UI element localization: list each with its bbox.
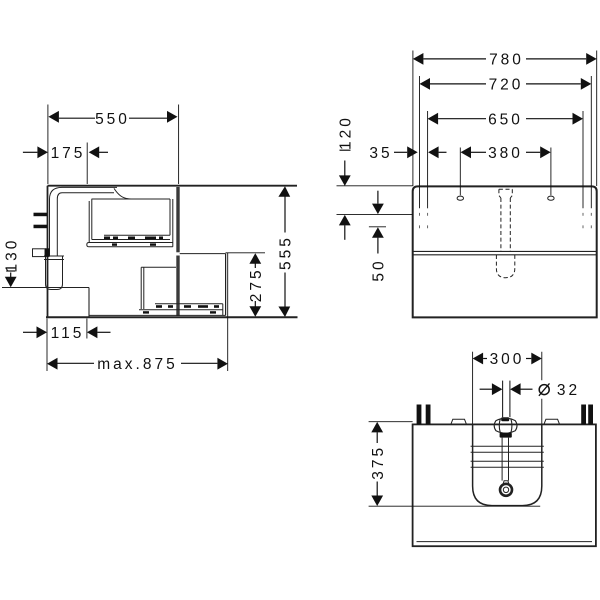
svg-text:720: 720 xyxy=(489,77,524,94)
drain pipe horizontal run xyxy=(50,187,118,199)
dim 380 xyxy=(471,151,540,153)
side view: raised bottom line xyxy=(2,287,89,289)
compression nut body xyxy=(494,418,517,433)
dim 175 xyxy=(23,143,108,185)
upper drawer interior xyxy=(87,199,173,247)
compression nut lock ring xyxy=(500,433,512,438)
hidden hole dashes left xyxy=(420,213,592,228)
svg-text:780: 780 xyxy=(489,52,524,69)
svg-text:175: 175 xyxy=(51,145,86,162)
mounting tab right xyxy=(544,419,560,424)
bottle trap cup xyxy=(44,256,64,290)
svg-text:375: 375 xyxy=(370,445,387,480)
dim 780 xyxy=(413,51,597,187)
basin bowl underside curve xyxy=(114,188,131,199)
dim 555 xyxy=(284,197,286,308)
svg-text:300: 300 xyxy=(490,351,525,368)
lower drawer open section xyxy=(89,254,226,316)
side view: cabinet back wall xyxy=(47,186,49,318)
dim 550 xyxy=(48,105,179,185)
side view: cabinet bottom baseline xyxy=(46,316,298,318)
traverse bars xyxy=(471,446,544,467)
faucet hole line left xyxy=(459,148,461,196)
mounting pins right xyxy=(581,405,586,425)
svg-text:550: 550 xyxy=(95,111,130,128)
dim 35 xyxy=(394,151,447,153)
wall bracket bottom xyxy=(34,225,48,229)
wall bracket top xyxy=(34,213,48,217)
dim 375 xyxy=(376,432,378,496)
dim 720 xyxy=(420,76,592,208)
dim max.875 xyxy=(58,362,218,364)
lower drawer rail ticks xyxy=(143,305,219,313)
side view: lower drawer front panel xyxy=(176,256,179,317)
dim 120 xyxy=(340,150,351,240)
svg-text:380: 380 xyxy=(488,145,523,162)
mounting pins left xyxy=(417,405,422,425)
compression nut cap xyxy=(501,417,509,421)
dim max.875 extension left xyxy=(46,339,48,372)
faucet hole line right xyxy=(550,148,552,196)
dim 375 reference top xyxy=(369,421,413,423)
svg-text:120: 120 xyxy=(338,115,355,150)
front view drawer divider xyxy=(413,250,597,252)
dim 50 reference line xyxy=(369,226,386,228)
bottom view box outline xyxy=(413,424,596,546)
svg-text:130: 130 xyxy=(3,238,20,273)
bottom view inner bottom line xyxy=(417,541,593,543)
drain pipe inside box xyxy=(502,438,508,481)
mounting tab left xyxy=(451,419,467,424)
dim 275 extension line xyxy=(226,252,266,254)
dim 130 xyxy=(6,271,15,277)
dim 300 xyxy=(473,352,542,424)
svg-text:555: 555 xyxy=(278,235,295,270)
svg-text:275: 275 xyxy=(248,267,265,302)
drain flange circles xyxy=(500,484,512,496)
front view cabinet top extension left xyxy=(337,185,413,187)
siphon hidden outline xyxy=(496,189,514,278)
svg-text:35: 35 xyxy=(369,145,392,162)
dim max.875 extension right xyxy=(227,253,229,371)
dim diameter 32 xyxy=(480,388,533,390)
dim 120 reference line xyxy=(337,213,413,215)
wall outlet pipe xyxy=(33,249,46,257)
svg-text:32: 32 xyxy=(557,382,580,399)
side view: upper drawer front panel xyxy=(176,187,179,252)
svg-text:max.875: max.875 xyxy=(97,356,177,373)
U cutout xyxy=(473,424,542,505)
drain flange nub xyxy=(503,481,508,484)
lower drawer interior xyxy=(141,267,176,309)
svg-text:115: 115 xyxy=(51,325,85,342)
svg-text:650: 650 xyxy=(488,111,523,128)
dim 275 xyxy=(254,264,256,307)
dim 50 xyxy=(377,191,379,254)
drain pipe vertical run xyxy=(50,199,58,256)
wall outlet flange xyxy=(45,248,50,257)
dim 115 xyxy=(23,319,111,339)
drain pipe above box xyxy=(503,381,510,418)
dim 375 reference bottom xyxy=(369,505,541,507)
svg-text:50: 50 xyxy=(371,258,388,281)
dim 650 xyxy=(428,111,583,208)
front view cabinet outline xyxy=(413,186,597,317)
upper drawer rail ticks xyxy=(104,237,163,246)
side view: bottom step vertical xyxy=(88,288,90,318)
side view: basin top line xyxy=(48,185,298,187)
